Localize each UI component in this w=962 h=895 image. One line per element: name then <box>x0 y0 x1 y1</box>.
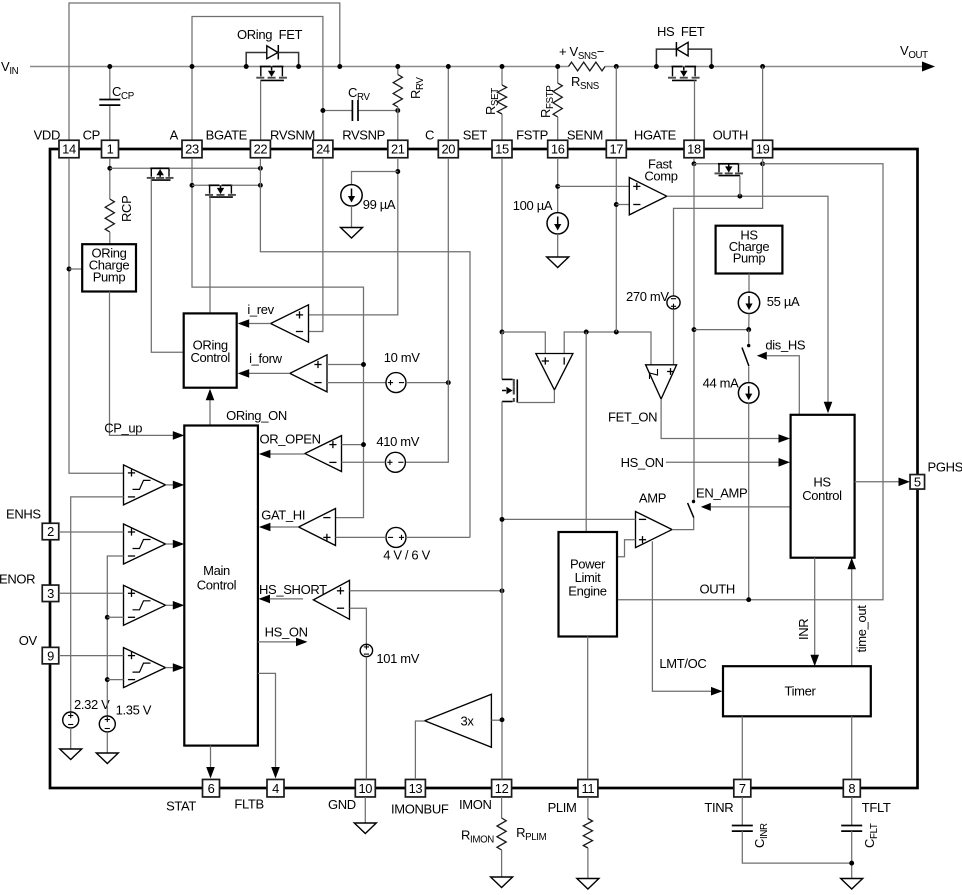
junction IMON HS_SHORT <box>500 588 505 593</box>
svg-text:410 mV: 410 mV <box>376 434 419 449</box>
wire 101mV to GND pin <box>365 657 367 780</box>
svg-text:TFLT: TFLT <box>862 800 891 815</box>
current source 55uA <box>738 292 759 313</box>
svg-text:2: 2 <box>47 524 54 539</box>
svg-text:10: 10 <box>358 781 372 796</box>
svg-text:Control: Control <box>802 488 842 503</box>
wire i_rev output <box>248 323 271 325</box>
ground GND pin <box>354 823 376 834</box>
junction VDD to ORing charge pump <box>67 267 72 272</box>
current source 99uA <box>341 185 362 206</box>
resistor RFSTP <box>557 67 559 84</box>
svg-text:22: 22 <box>254 142 268 157</box>
svg-text:AMP: AMP <box>639 491 666 506</box>
svg-text:19: 19 <box>756 142 770 157</box>
comparator HS_SHORT <box>313 580 349 619</box>
wire CRV branch <box>323 110 353 112</box>
svg-text:1.35 V: 1.35 V <box>116 703 152 718</box>
signal arrow i_rev into ORing Control <box>238 319 250 328</box>
signal arrow OR_OPEN into Main Control <box>259 450 271 459</box>
junction C rail 10mV <box>446 380 451 385</box>
junction RFSTP on VIN <box>555 64 560 69</box>
junction IMON AMP <box>500 517 505 522</box>
svg-text:8: 8 <box>848 781 855 796</box>
capacitor CRV <box>351 100 353 121</box>
junction BGATE FET A <box>258 166 263 171</box>
junction CINR CFLT <box>849 861 854 866</box>
wire FET B to BGATE <box>231 184 260 186</box>
voltage source 270mV <box>667 296 680 309</box>
wire HS_ON to HS Control <box>666 461 780 463</box>
comparator FET_ON slew <box>646 365 677 399</box>
signal arrow STAT into pin 6 <box>206 767 215 779</box>
pin 7 TINR <box>734 779 751 797</box>
wire LMT/OC <box>652 541 711 691</box>
block HS Control <box>791 415 855 558</box>
junction CCP on VIN <box>107 64 112 69</box>
signal arrow HS_ON into HS Control <box>779 458 791 467</box>
pin 9 OV <box>42 647 59 664</box>
transistor FET A (charge pump) <box>150 167 161 169</box>
svg-text:C: C <box>425 128 434 143</box>
signal arrow EN_AMP <box>701 503 711 511</box>
svg-text:Pump: Pump <box>93 270 126 285</box>
junction OUTH on VIN <box>760 64 765 69</box>
svg-text:3x: 3x <box>460 714 474 729</box>
current source 100uA <box>547 213 568 234</box>
wire OUTH pin internal stub <box>762 158 764 164</box>
wire comparator ENHS output <box>166 543 175 545</box>
svg-text:100 µA: 100 µA <box>513 198 553 213</box>
svg-text:ENHS: ENHS <box>6 507 41 522</box>
pin 16 FSTP <box>548 140 568 158</box>
junction HGATE 55uA <box>692 327 697 332</box>
wire AMP plus to Power Limit Engine <box>617 540 636 557</box>
wire OUTH to 270mV route <box>674 164 763 296</box>
svg-text:99 µA: 99 µA <box>363 197 396 212</box>
svg-text:14: 14 <box>62 142 76 157</box>
wire HS FET gate to HGATE <box>694 80 696 140</box>
svg-text:HS_ON: HS_ON <box>621 455 664 470</box>
svg-text:10 mV: 10 mV <box>384 350 421 365</box>
junction IMON 3x <box>500 717 505 722</box>
IC boundary <box>50 149 918 788</box>
svg-text:i_forw: i_forw <box>249 351 283 366</box>
svg-text:24: 24 <box>316 142 330 157</box>
pin 21 RVSNP <box>388 140 408 158</box>
ground 99uA <box>341 228 363 239</box>
wire i_forw plus to A rail <box>327 364 364 366</box>
svg-text:11: 11 <box>582 781 595 796</box>
junction HGATE node <box>692 161 697 166</box>
svg-text:Control: Control <box>190 350 230 365</box>
wire CP_up <box>110 292 174 436</box>
svg-text:9: 9 <box>47 648 54 663</box>
svg-text:13: 13 <box>409 781 423 796</box>
junction SENM on VIN <box>614 64 619 69</box>
svg-text:A: A <box>170 128 179 143</box>
svg-text:EN_AMP: EN_AMP <box>696 486 747 501</box>
wire OR_OPEN output <box>269 453 305 455</box>
wire HS_SHORT plus to IMON rail <box>350 590 503 592</box>
svg-text:ORing FET: ORing FET <box>237 27 303 42</box>
svg-text:HGATE: HGATE <box>634 128 677 143</box>
wire 55uA to HGATE node <box>748 314 750 330</box>
pin 22 BGATE <box>250 140 270 158</box>
wire 1.35V to OV comparator <box>107 679 123 681</box>
svg-text:6: 6 <box>208 781 215 796</box>
svg-text:GAT_HI: GAT_HI <box>261 508 305 523</box>
signal arrow i_forw into ORing Control <box>238 369 250 378</box>
wire OUTH right route to OUTH rail <box>617 164 883 600</box>
junction VDD tap on VIN <box>337 64 342 69</box>
voltage source 410mV <box>385 452 405 472</box>
wire 99uA branch <box>352 172 398 185</box>
ground 2.32V <box>60 749 82 760</box>
signal arrow FET_ON into HS Control <box>779 434 791 443</box>
wire C pin column upper <box>447 67 449 141</box>
voltage source 10mV <box>386 373 406 393</box>
junction BGATE FET B <box>258 183 263 188</box>
block Timer <box>723 666 871 716</box>
voltage source 4V/6V <box>386 527 406 547</box>
wire HGATE internal column <box>693 164 695 501</box>
wire pin2 ENHS to comparator <box>59 531 124 533</box>
pin 19 OUTH <box>753 140 773 158</box>
svg-text:18: 18 <box>687 142 701 157</box>
junction FSTP FastComp <box>555 184 560 189</box>
junction RVSNP 99uA <box>395 169 400 174</box>
junction Fast Comp gate drive <box>737 194 742 199</box>
wire 1.35V to ENOR comparator <box>107 616 123 618</box>
junction node B SENM <box>614 330 619 335</box>
junction SENM FastComp <box>614 202 619 207</box>
svg-text:RVSNM: RVSNM <box>270 128 315 143</box>
ground RPLIM <box>577 879 599 890</box>
comparator enable VDD <box>124 465 166 505</box>
resistor RSET <box>501 67 503 86</box>
signal arrow LMT/OC into Timer <box>711 687 723 696</box>
block ORing Control <box>184 313 237 387</box>
svg-text:5: 5 <box>914 475 921 490</box>
signal arrow CP_up into Main Control <box>173 431 185 440</box>
wire 3x output to IMONBUF pin <box>415 721 424 779</box>
wire IMON internal column <box>501 402 503 780</box>
svg-text:PGHS: PGHS <box>928 460 962 475</box>
junction HS FET right <box>709 64 714 69</box>
junction CRV left <box>320 108 325 113</box>
wire CP internal column <box>109 158 111 199</box>
svg-text:23: 23 <box>185 142 199 157</box>
ground 1.35V <box>96 753 118 764</box>
wire comparator right input to node B <box>564 332 651 365</box>
svg-text:IMONBUF: IMONBUF <box>391 802 449 817</box>
capacitor CFLT <box>851 797 853 826</box>
junction node B PLE feed <box>584 330 589 335</box>
svg-text:GND: GND <box>328 797 356 812</box>
pin 14 VDD <box>59 140 79 158</box>
wire STAT <box>210 746 212 768</box>
transistor HGATE clamp FET <box>718 163 729 165</box>
svg-text:Control: Control <box>197 578 237 593</box>
pin 17 SENM <box>606 140 626 158</box>
wire VDD internal rail <box>69 158 124 473</box>
svg-text:OV: OV <box>19 633 38 648</box>
wire 410mV to OR_OPEN minus <box>342 461 386 463</box>
current source 44mA <box>738 383 759 404</box>
comparator OV <box>124 648 166 688</box>
wire FLTB <box>258 673 276 767</box>
voltage source 2.32V <box>63 712 79 728</box>
block Main Control <box>184 426 258 746</box>
svg-text:VDD: VDD <box>34 128 60 143</box>
wire 100uA to ground <box>557 234 559 257</box>
comparator SET clamp <box>536 354 573 390</box>
pin 20 C <box>438 140 458 158</box>
svg-text:Pump: Pump <box>733 251 766 266</box>
signal arrow ORing_ON <box>209 397 211 426</box>
comparator ENHS <box>124 524 166 564</box>
block HS Charge Pump <box>716 226 783 274</box>
pin 2 ENHS <box>42 523 59 540</box>
voltage source 101mV <box>360 644 372 656</box>
wire GND pin to ground <box>364 797 366 823</box>
wire 55uA-44mA to HGATE <box>694 329 749 331</box>
wire SENM internal column <box>615 158 617 332</box>
svg-text:dis_HS: dis_HS <box>765 338 805 353</box>
wire HS_SHORT <box>270 598 304 600</box>
wire FET A to BGATE <box>169 167 260 169</box>
svg-text:HS FET: HS FET <box>657 24 705 39</box>
wire VIN rail <box>30 66 569 68</box>
wire FSTP internal column <box>557 158 559 212</box>
junction RSET on VIN <box>500 64 505 69</box>
wire pin9 OV to comparator <box>59 655 124 657</box>
svg-text:4: 4 <box>272 781 279 796</box>
svg-text:Comp: Comp <box>644 169 677 184</box>
block Power Limit Engine <box>559 532 618 637</box>
pin 4 FLTB <box>267 779 284 797</box>
wire comparator OV output <box>166 667 175 669</box>
pin 8 TFLT <box>843 779 860 797</box>
svg-text:LMT/OC: LMT/OC <box>659 656 706 671</box>
svg-text:12: 12 <box>495 781 509 796</box>
wire HGATE to internal FET <box>694 163 719 165</box>
svg-text:2.32 V: 2.32 V <box>74 697 110 712</box>
wire HGATE node <box>693 158 695 164</box>
svg-text:HS_ON: HS_ON <box>265 625 308 640</box>
junction OUTH node <box>760 161 765 166</box>
wire C internal column <box>405 158 448 462</box>
signal arrow Fast Comp into HS Control top <box>824 402 833 414</box>
wire 4V6V to GAT_HI plus <box>336 536 387 538</box>
wire GAT_HI output <box>269 526 299 528</box>
comparator i_forw <box>290 355 327 392</box>
ground CINR CFLT <box>841 879 863 890</box>
wire 3x input from IMON <box>491 719 502 721</box>
junction A rail OR_OPEN <box>361 442 366 447</box>
wire Timer to TFLT pin <box>851 716 853 779</box>
wire CP pin column <box>109 67 111 100</box>
pin 3 ENOR <box>42 585 59 602</box>
wire HS_SHORT minus to 101mV <box>350 608 367 644</box>
svg-text:IMON: IMON <box>459 797 492 812</box>
wire FET_ON output <box>661 399 779 439</box>
comparator GAT_HI <box>299 509 336 546</box>
svg-text:Timer: Timer <box>785 684 817 699</box>
svg-text:7: 7 <box>739 781 746 796</box>
buffer 3x <box>425 694 492 747</box>
wire RVSNM internal column <box>309 158 323 332</box>
wire Timer to TINR pin <box>741 716 743 779</box>
signal arrow dis_HS <box>757 352 767 360</box>
wire 1.35V ground <box>106 732 108 753</box>
wire internal FET to OUTH node <box>739 163 763 165</box>
wire FET A gate to ORing Control <box>151 180 184 352</box>
junction ORing FET left <box>244 64 249 69</box>
resistor RPLIM <box>587 797 589 819</box>
switch dis_HS <box>747 344 750 347</box>
wire CP to FET A <box>110 167 152 169</box>
pin 11 PLIM <box>578 779 598 797</box>
wire 4V6V right to BGATE route <box>406 536 470 538</box>
svg-text:RCP: RCP <box>119 196 134 222</box>
resistor RSNS <box>569 62 606 71</box>
comparator ENOR <box>124 585 166 625</box>
signal arrow HS_ON from Main Control <box>258 641 297 643</box>
capacitor CINR <box>741 797 743 826</box>
svg-text:INR: INR <box>796 619 811 640</box>
wire A to FET B <box>192 184 210 186</box>
wire 1.35V rail <box>107 556 123 716</box>
junction 55uA HGATE <box>746 327 751 332</box>
switch EN_AMP <box>692 500 695 503</box>
svg-text:ENOR: ENOR <box>0 572 35 587</box>
transistor ORing FET <box>246 53 267 67</box>
wire node B to Power Limit Engine <box>585 332 587 532</box>
junction 44mA OUTH rail <box>746 597 751 602</box>
signal arrow FLTB into pin 4 <box>271 767 280 779</box>
junction RRV on VIN <box>395 64 400 69</box>
signal arrow INR into Timer <box>810 655 819 667</box>
wire RVSNP internal column <box>309 158 398 315</box>
node VOUT arrow <box>922 62 935 72</box>
junction 1.35V ENOR <box>105 615 110 620</box>
wire BGATE internal column <box>260 158 470 537</box>
voltage source 1.35V <box>99 716 115 732</box>
junction HS FET left <box>654 64 659 69</box>
svg-text:44 mA: 44 mA <box>703 376 740 391</box>
svg-text:FET_ON: FET_ON <box>608 410 657 425</box>
ground 100uA <box>547 257 569 268</box>
comparator OR_OPEN <box>305 436 342 472</box>
svg-text:20: 20 <box>441 142 455 157</box>
block ORing Charge Pump <box>82 244 136 291</box>
signal arrow time_out into HS Control <box>847 558 856 570</box>
signal arrow comparator ENHS into Main Control <box>173 540 185 549</box>
svg-text:OR_OPEN: OR_OPEN <box>260 432 321 447</box>
comparator Fast Comp <box>629 178 667 215</box>
wire INR <box>814 558 816 656</box>
pin 1 CP <box>102 140 119 158</box>
signal arrow comparator enable VDD into Main Control <box>173 481 185 490</box>
wire FSTP to FastComp plus <box>558 185 630 187</box>
pin 18 HGATE <box>684 140 704 158</box>
svg-text:TINR: TINR <box>704 800 733 815</box>
junction CRV right <box>395 108 400 113</box>
pin 24 RVSNM <box>313 140 333 158</box>
svg-text:time_out: time_out <box>854 605 869 653</box>
pin 6 STAT <box>203 779 220 797</box>
svg-text:FLTB: FLTB <box>234 797 263 812</box>
signal arrow HS_SHORT into Main Control <box>259 595 271 604</box>
wire 2.32V ground <box>70 728 72 749</box>
svg-text:55 µA: 55 µA <box>767 294 800 309</box>
wire internal FET gate <box>739 176 741 197</box>
signal arrow GAT_HI into Main Control <box>259 523 271 532</box>
svg-text:HS_SHORT: HS_SHORT <box>259 582 327 597</box>
junction CP FET node <box>107 166 112 171</box>
junction 1.35V OV <box>105 677 110 682</box>
svg-text:CP_up: CP_up <box>104 421 142 436</box>
svg-text:OUTH: OUTH <box>713 128 748 143</box>
pin 10 GND <box>355 779 375 797</box>
wire OUTH pin column <box>762 67 764 141</box>
wire HS Charge Pump to 55uA <box>748 274 750 293</box>
wire 99uA to ground <box>351 206 353 228</box>
signal arrow comparator OV into Main Control <box>173 663 185 672</box>
svg-text:SENM: SENM <box>567 128 603 143</box>
junction A on VIN <box>190 64 195 69</box>
svg-text:1: 1 <box>107 142 114 157</box>
resistor RCP <box>105 199 114 232</box>
svg-text:STAT: STAT <box>166 799 196 814</box>
wire PGHS <box>855 481 900 483</box>
wire 44mA to OUTH rail <box>748 403 750 600</box>
signal arrow comparator ENOR into Main Control <box>173 601 185 610</box>
wire 270mV to slew comparator <box>673 309 675 365</box>
wire VDD top route <box>69 3 340 140</box>
wire ORing FET gate to BGATE <box>260 80 262 140</box>
svg-text:16: 16 <box>551 142 565 157</box>
wire SENM pin column <box>615 67 617 141</box>
transistor FET B <box>209 184 220 186</box>
transistor SET clamp FET <box>501 332 503 379</box>
junction A FET B <box>190 183 195 188</box>
wire A pin internal column <box>192 158 364 518</box>
wire AMP output to switch <box>672 518 694 530</box>
svg-text:PLIM: PLIM <box>548 800 577 815</box>
wire 2.32V to comparator minus <box>71 497 124 712</box>
wire Fast Comp output to HS Control <box>667 196 828 404</box>
svg-text:4 V / 6 V: 4 V / 6 V <box>383 548 430 563</box>
wire SET rail to comparator <box>502 332 545 354</box>
svg-text:Main: Main <box>203 563 230 578</box>
transistor HS FET <box>656 49 676 66</box>
svg-text:270 mV: 270 mV <box>626 289 669 304</box>
svg-text:RVSNP: RVSNP <box>342 128 385 143</box>
svg-text:Engine: Engine <box>568 584 606 599</box>
wire 10mV to C rail <box>406 382 448 384</box>
svg-text:15: 15 <box>495 142 509 157</box>
junction C on VIN <box>446 64 451 69</box>
wire i_forw minus to 10mV <box>327 382 386 384</box>
wire A to RVSNM top route <box>192 17 323 141</box>
pin 15 SET <box>492 140 512 158</box>
wire pin3 ENOR to comparator <box>59 592 124 594</box>
junction ORing FET right <box>296 64 301 69</box>
pin 12 IMON <box>492 779 512 797</box>
